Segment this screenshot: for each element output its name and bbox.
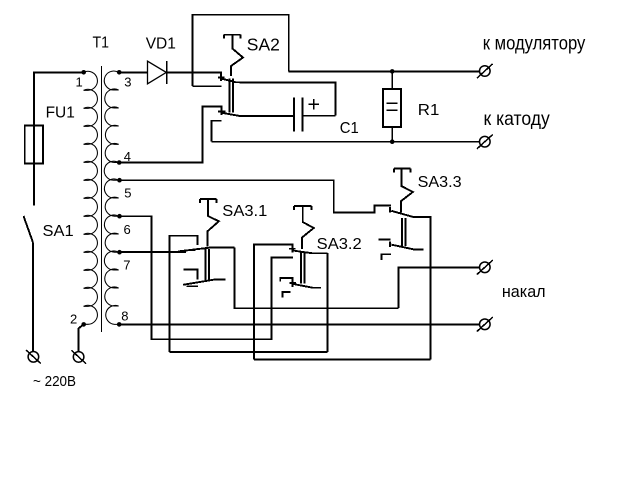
switch SA3.1 lever 2 <box>183 280 226 285</box>
wire rail to SA2 contact 2 <box>193 85 222 87</box>
wire pin5 to SA3.3 contact <box>120 180 392 212</box>
wire SA3.2 to bus <box>326 253 328 352</box>
node SA2 upper contact tick <box>218 76 224 78</box>
node pin 7 <box>117 250 130 273</box>
switch SA3.2 lever 1 <box>293 251 328 254</box>
svg-text:1: 1 <box>76 75 83 90</box>
wire bus 352 <box>170 351 328 353</box>
node pin 8 <box>117 309 129 327</box>
node junction R1 top <box>390 69 395 74</box>
node pin 1 <box>76 70 86 90</box>
switch SA3.3 insulator bar <box>402 218 405 246</box>
node pin 2 <box>70 312 86 327</box>
node SA3.2 upper contact tick <box>289 248 296 250</box>
label SA1 <box>43 223 74 240</box>
label SA2 <box>247 34 280 54</box>
svg-text:к катоду: к катоду <box>484 108 551 130</box>
label k katodu <box>484 108 551 130</box>
label SA3.3 <box>418 174 462 191</box>
svg-text:3: 3 <box>124 75 131 90</box>
node SA3.2 lower contact tick <box>290 282 296 284</box>
svg-text:C1: C1 <box>340 120 359 137</box>
terminal to modulator <box>477 64 493 78</box>
terminal filament upper <box>477 260 493 274</box>
switch SA3.2 lever 2 <box>293 284 321 288</box>
switch SA2 lever 1 <box>221 79 336 116</box>
svg-text:SA3.2: SA3.2 <box>317 236 362 253</box>
terminal ~220V left <box>26 350 41 363</box>
svg-text:R1: R1 <box>418 102 440 119</box>
svg-text:к модулятору: к модулятору <box>483 33 586 55</box>
resistor R1 <box>383 89 401 127</box>
svg-text:8: 8 <box>121 309 128 324</box>
label SA3.2 <box>317 236 362 253</box>
svg-text:7: 7 <box>123 258 130 273</box>
switch SA3.1 actuator <box>200 199 219 247</box>
switch SA2 actuator <box>224 35 243 76</box>
svg-text:5: 5 <box>124 186 131 201</box>
transformer T1 primary winding <box>84 71 98 324</box>
svg-text:T1: T1 <box>93 35 110 52</box>
wire SA3.1 middle contact <box>184 269 198 279</box>
wire SA3.3 spare contact <box>381 254 391 260</box>
wire pin8 bus <box>119 323 479 325</box>
label T1 <box>93 35 110 52</box>
label k modulyatoru <box>483 33 586 55</box>
svg-text:SA3.3: SA3.3 <box>418 174 462 191</box>
svg-text:~ 220В: ~ 220В <box>33 373 76 390</box>
wire SA1 to terminal <box>32 243 34 352</box>
svg-text:SA3.1: SA3.1 <box>222 203 267 220</box>
switch SA3.3 lever 1 <box>391 211 430 360</box>
wire R1 bottom lead <box>391 127 393 142</box>
switch SA3.3 actuator <box>394 168 413 212</box>
fuse FU1 <box>25 126 43 164</box>
svg-text:FU1: FU1 <box>46 105 75 122</box>
capacitor C1 plates <box>294 98 303 132</box>
node pin 4 <box>117 149 131 165</box>
transformer T1 secondary winding <box>104 71 118 324</box>
switch SA3.1 insulator bar <box>205 249 209 281</box>
wire SA2 contact to cathode line <box>211 121 221 142</box>
wire pin6 route <box>120 216 294 339</box>
node pin 3 <box>117 70 132 90</box>
label ~ 220B <box>33 373 76 390</box>
switch SA3.3 lever 2 <box>391 245 423 250</box>
label VD1 <box>146 35 176 52</box>
node SA3.1 lower contact tick <box>187 285 199 287</box>
label FU1 <box>46 105 75 122</box>
node pin 5 <box>117 178 131 201</box>
wire SA3.2 upper contact feed <box>254 244 293 359</box>
svg-text:2: 2 <box>70 312 77 327</box>
wire top rail <box>193 15 289 87</box>
switch SA3.2 actuator <box>294 206 314 249</box>
switch SA3.2 insulator bar <box>301 252 305 284</box>
switch SA1 blade <box>24 216 34 243</box>
switch SA2 lever 2 <box>222 113 294 116</box>
capacitor C1 plus sign <box>309 99 320 110</box>
wire to filament upper <box>398 267 479 308</box>
svg-text:SA2: SA2 <box>247 34 280 54</box>
svg-text:VD1: VD1 <box>146 35 176 52</box>
node pin 6 <box>117 214 131 237</box>
label C1 <box>340 120 359 137</box>
label SA3.1 <box>222 203 267 220</box>
wire SA3.2 lower contact <box>280 278 292 287</box>
terminal ~220V right <box>71 350 86 363</box>
wire R1 top lead <box>391 71 393 89</box>
switch SA2 insulator bar <box>229 79 233 113</box>
wire pin1 to fuse <box>34 72 84 205</box>
wire C1 right lead <box>303 115 336 117</box>
svg-text:накал: накал <box>502 282 546 301</box>
wire bus 360 <box>254 359 430 361</box>
wire pin7 to SA3.1 contact <box>120 251 187 253</box>
wire to modulator <box>289 70 480 72</box>
node SA3.1 upper contact tick <box>187 249 195 251</box>
svg-text:SA1: SA1 <box>43 223 74 240</box>
diode VD1 <box>148 61 167 84</box>
svg-text:6: 6 <box>124 222 131 237</box>
wire filament bus <box>235 247 399 308</box>
node SA2 lower contact tick <box>218 111 226 113</box>
terminal filament lower <box>477 317 493 331</box>
wire pin2 to terminal <box>78 324 83 351</box>
wire SA3.1 alternate contact <box>170 236 198 352</box>
wire pin3 to diode <box>119 71 147 73</box>
transformer T1 core <box>100 66 102 332</box>
label nakal <box>502 282 546 301</box>
terminal to cathode <box>477 135 493 149</box>
wire SA3.2 spare contact <box>283 292 291 298</box>
wire diode to SA2 contact <box>167 72 221 81</box>
switch SA3.1 lever 1 <box>178 247 234 251</box>
node SA3.3 upper contact tick <box>389 207 391 213</box>
wire to cathode <box>211 141 479 143</box>
label R1 <box>418 102 440 119</box>
node junction R1 bottom <box>390 139 395 144</box>
wire pin4 to SA2 lower contact <box>119 107 221 163</box>
wire SA3.3 lower contact <box>379 239 391 247</box>
